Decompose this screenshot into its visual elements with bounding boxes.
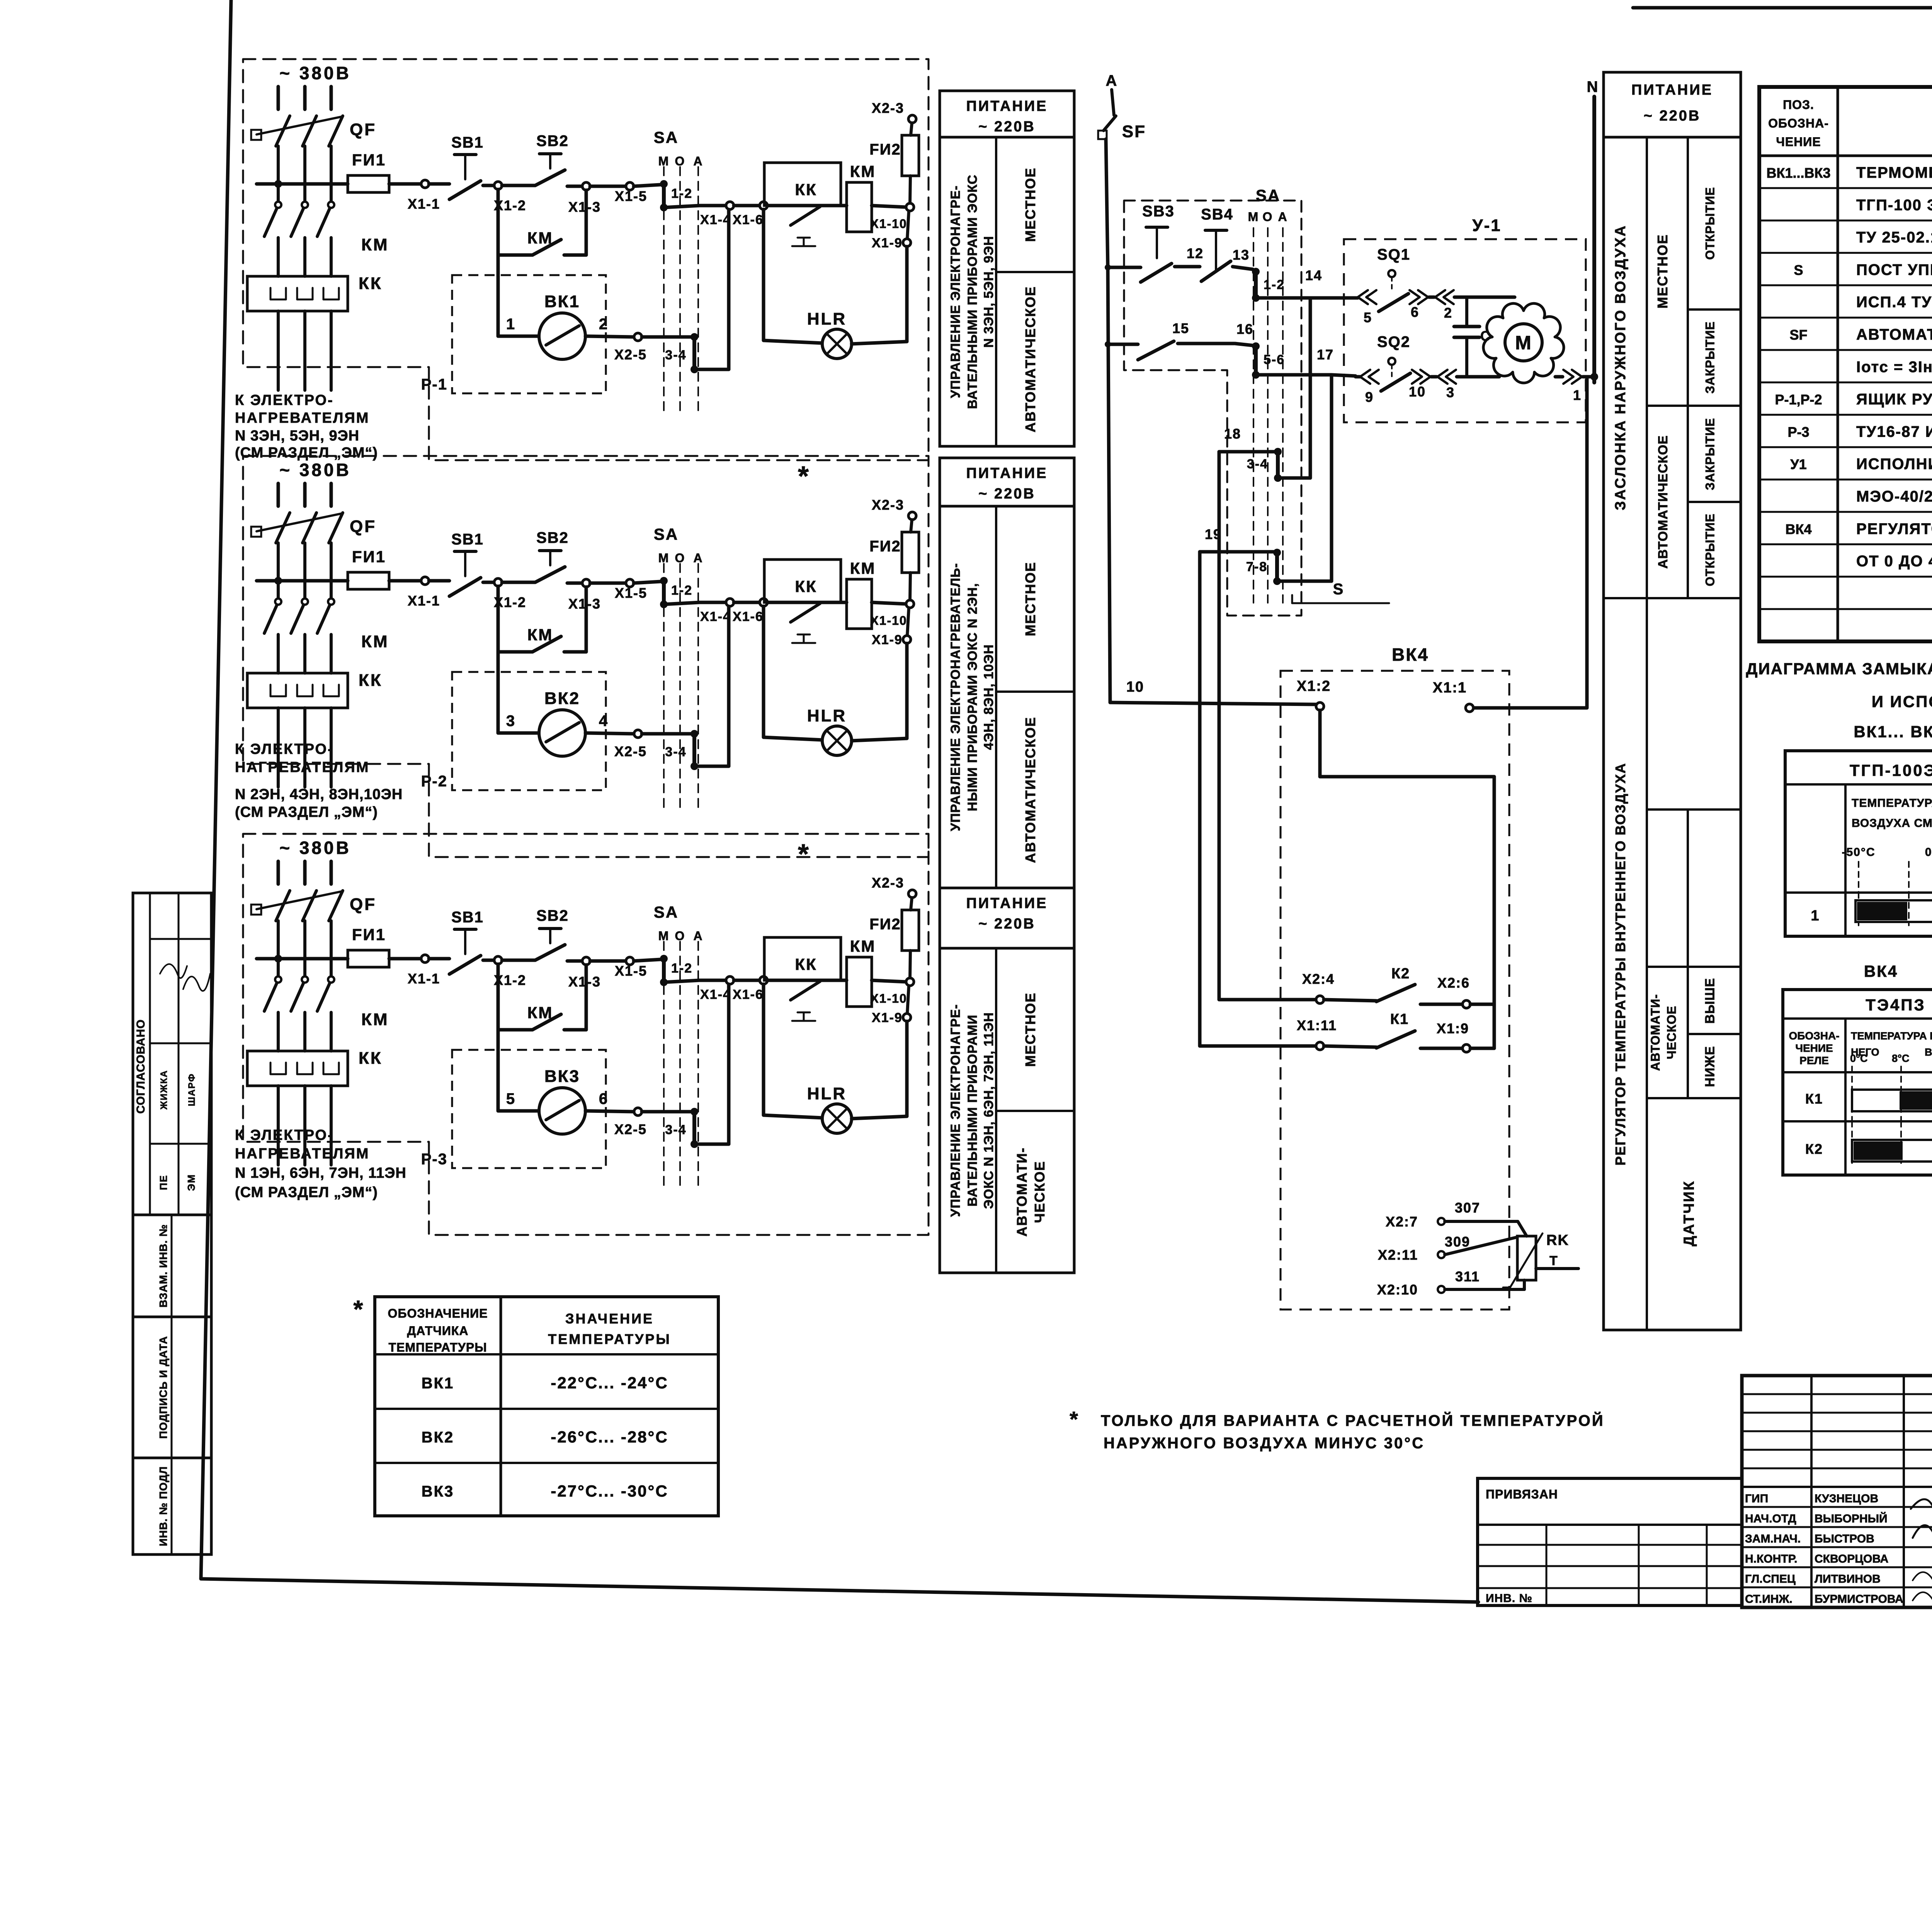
svg-text:Х1-4: Х1-4	[700, 609, 731, 624]
svg-text:ЭОКС N 1ЭН, 6ЭН, 7ЭН, 11ЭН: ЭОКС N 1ЭН, 6ЭН, 7ЭН, 11ЭН	[981, 1012, 996, 1209]
svg-text:ПРИВЯЗАН: ПРИВЯЗАН	[1486, 1487, 1558, 1501]
svg-text:HLR: HLR	[807, 706, 847, 725]
svg-text:15: 15	[1172, 320, 1189, 336]
svg-text:АВТОМАТИЧЕСКОЕ: АВТОМАТИЧЕСКОЕ	[1022, 716, 1038, 863]
svg-text:КМ: КМ	[850, 937, 876, 955]
svg-text:ОТ 0 ДО 40°С ТУ25.02.200353-8: ОТ 0 ДО 40°С ТУ25.02.200353-84	[1856, 553, 1932, 570]
svg-text:(СМ РАЗДЕЛ „ЭМ“): (СМ РАЗДЕЛ „ЭМ“)	[235, 804, 378, 820]
svg-text:ТОЛЬКО ДЛЯ ВАРИАНТА С РАСЧ: ТОЛЬКО ДЛЯ ВАРИАНТА С РАСЧЕТНОЙ ТЕМПЕРАТ…	[1101, 1412, 1605, 1429]
svg-text:3-4: 3-4	[1247, 457, 1268, 471]
svg-text:Х1-1: Х1-1	[408, 971, 440, 986]
svg-text:SF: SF	[1122, 122, 1146, 141]
svg-text:Х2:4: Х2:4	[1302, 971, 1335, 987]
svg-text:КМ: КМ	[850, 559, 876, 577]
svg-text:К2: К2	[1805, 1141, 1823, 1157]
svg-text:Х1:9: Х1:9	[1437, 1020, 1469, 1036]
svg-text:Х2-5: Х2-5	[614, 1121, 647, 1137]
svg-text:SA: SA	[654, 128, 679, 146]
svg-text:О: О	[675, 154, 685, 168]
svg-text:ПИТАНИЕ: ПИТАНИЕ	[1631, 82, 1713, 98]
svg-text:FИ2: FИ2	[869, 141, 901, 158]
svg-text:НАГРЕВАТЕЛЯМ: НАГРЕВАТЕЛЯМ	[235, 410, 369, 426]
svg-text:0°С: 0°С	[1850, 1053, 1867, 1064]
svg-text:ВК1: ВК1	[422, 1375, 454, 1392]
svg-text:~ 220В: ~ 220В	[978, 486, 1036, 502]
svg-text:12: 12	[1187, 245, 1204, 261]
svg-text:ОБОЗНАЧЕНИЕ: ОБОЗНАЧЕНИЕ	[388, 1306, 488, 1320]
svg-text:ВОЗДУХА СМ. ТАБЛИЦУ: ВОЗДУХА СМ. ТАБЛИЦУ	[1852, 817, 1932, 830]
svg-text:SB3: SB3	[1142, 203, 1175, 220]
svg-text:ПИТАНИЕ: ПИТАНИЕ	[966, 465, 1048, 481]
svg-text:СТ.ИНЖ.: СТ.ИНЖ.	[1745, 1593, 1793, 1605]
svg-text:Х1-10: Х1-10	[870, 992, 907, 1005]
svg-text:О: О	[1263, 210, 1273, 224]
svg-text:М: М	[658, 551, 670, 565]
svg-text:ВК1: ВК1	[544, 292, 580, 311]
svg-text:К ЭЛЕКТРО-: К ЭЛЕКТРО-	[235, 741, 334, 757]
svg-text:ТЕМПЕРАТУРЫ: ТЕМПЕРАТУРЫ	[388, 1340, 487, 1354]
svg-text:ЧЕНИЕ: ЧЕНИЕ	[1795, 1042, 1833, 1054]
svg-text:Х1-6: Х1-6	[733, 213, 764, 227]
svg-text:ТУ16-87 И УКЖ.656335.074ТУ: ТУ16-87 И УКЖ.656335.074ТУ	[1856, 423, 1932, 440]
svg-text:ВК3: ВК3	[544, 1067, 580, 1086]
svg-text:5: 5	[506, 1090, 515, 1107]
svg-text:Х1-9: Х1-9	[872, 633, 903, 647]
svg-text:ТЕМПЕРАТУРА ВНУТРЕН-: ТЕМПЕРАТУРА ВНУТРЕН-	[1851, 1030, 1932, 1042]
svg-text:Т: Т	[1549, 1253, 1558, 1268]
svg-text:КК: КК	[359, 671, 383, 690]
svg-text:МЕСТНОЕ: МЕСТНОЕ	[1655, 234, 1670, 308]
svg-text:М: М	[1248, 210, 1259, 224]
svg-text:5: 5	[1364, 310, 1372, 325]
svg-text:3-4: 3-4	[665, 1122, 686, 1137]
svg-text:НЫМИ ПРИБОРАМИ ЭОКС N 2ЭН,: НЫМИ ПРИБОРАМИ ЭОКС N 2ЭН,	[965, 583, 980, 811]
svg-text:Х2:6: Х2:6	[1437, 975, 1470, 991]
svg-text:К1: К1	[1805, 1091, 1823, 1107]
svg-text:ВЫШЕ: ВЫШЕ	[1703, 978, 1718, 1024]
svg-text:3: 3	[506, 713, 515, 730]
svg-text:309: 309	[1445, 1234, 1470, 1250]
svg-text:FИ2: FИ2	[869, 916, 901, 933]
svg-text:HLR: HLR	[807, 1084, 847, 1103]
svg-text:РЕГУЛЯТОР ТЕМПЕРАТУРЫ ВНУТРЕ: РЕГУЛЯТОР ТЕМПЕРАТУРЫ ВНУТРЕННЕГО ВОЗДУХ…	[1612, 763, 1628, 1166]
svg-text:FИ1: FИ1	[352, 151, 386, 169]
svg-text:КМ: КМ	[527, 1003, 553, 1022]
svg-text:A: A	[1106, 72, 1118, 89]
svg-text:307: 307	[1455, 1200, 1480, 1216]
svg-text:ЗАКРЫТИЕ: ЗАКРЫТИЕ	[1703, 418, 1717, 490]
svg-text:УПРАВЛЕНИЕ ЭЛЕКТРОНАГРЕ-: УПРАВЛЕНИЕ ЭЛЕКТРОНАГРЕ-	[948, 1004, 963, 1217]
svg-text:Р-1: Р-1	[421, 376, 447, 393]
svg-text:Х1-1: Х1-1	[408, 196, 440, 212]
svg-text:ШАРФ: ШАРФ	[187, 1073, 197, 1106]
svg-text:(СМ РАЗДЕЛ „ЭМ“): (СМ РАЗДЕЛ „ЭМ“)	[235, 1184, 378, 1201]
svg-text:19: 19	[1205, 526, 1222, 542]
svg-text:МЭО-40/25-0,25: МЭО-40/25-0,25	[1856, 488, 1932, 505]
svg-text:Х1-6: Х1-6	[733, 987, 764, 1002]
svg-text:1-2: 1-2	[671, 583, 692, 598]
svg-text:АВТОМАТИЧЕСКОЕ: АВТОМАТИЧЕСКОЕ	[1656, 435, 1670, 569]
svg-text:КМ: КМ	[361, 235, 389, 254]
svg-text:4ЭН, 8ЭН, 10ЭН: 4ЭН, 8ЭН, 10ЭН	[981, 644, 996, 750]
svg-text:О: О	[675, 929, 685, 943]
svg-text:НАЧ.ОТД: НАЧ.ОТД	[1745, 1512, 1796, 1525]
svg-text:1-2: 1-2	[1264, 277, 1285, 292]
svg-text:КУЗНЕЦОВ: КУЗНЕЦОВ	[1815, 1492, 1878, 1505]
svg-text:МЕСТНОЕ: МЕСТНОЕ	[1022, 561, 1038, 636]
svg-text:КМ: КМ	[361, 632, 389, 651]
svg-text:ВОЗДУХА: ВОЗДУХА	[1925, 1046, 1932, 1058]
svg-text:ДАТЧИК: ДАТЧИК	[1681, 1180, 1697, 1246]
svg-text:ВАТЕЛЬНЫМИ ПРИБОРАМИ ЭОКС: ВАТЕЛЬНЫМИ ПРИБОРАМИ ЭОКС	[965, 175, 980, 409]
svg-text:ТГП-100 ЭК -50°С ... + 50°С: ТГП-100 ЭК -50°С ... + 50°С	[1856, 197, 1932, 214]
svg-text:Х2-3: Х2-3	[872, 875, 904, 891]
svg-text:HLR: HLR	[807, 310, 847, 328]
svg-text:ПЕ: ПЕ	[158, 1175, 169, 1190]
svg-text:13: 13	[1233, 247, 1250, 263]
svg-text:ВЗАМ. ИНВ. №: ВЗАМ. ИНВ. №	[157, 1224, 169, 1308]
svg-text:Х2:11: Х2:11	[1378, 1247, 1418, 1263]
svg-text:QF: QF	[350, 517, 376, 536]
svg-text:~ 380В: ~ 380В	[279, 63, 351, 83]
svg-text:ЯЩИК РУСМ-5111: ЯЩИК РУСМ-5111	[1856, 391, 1932, 408]
svg-text:311: 311	[1455, 1269, 1480, 1284]
svg-text:RK: RK	[1546, 1232, 1569, 1248]
svg-text:~ 220В: ~ 220В	[978, 119, 1036, 135]
svg-text:КМ: КМ	[850, 162, 876, 180]
svg-text:1: 1	[506, 316, 515, 333]
svg-text:SB1: SB1	[451, 134, 484, 151]
svg-text:ПОСТ УПРАВЛЕНИЯ ПКУ15-21-131: ПОСТ УПРАВЛЕНИЯ ПКУ15-21-131-54У2	[1856, 261, 1932, 278]
svg-text:QF: QF	[350, 120, 376, 139]
svg-text:ПИТАНИЕ: ПИТАНИЕ	[966, 895, 1048, 912]
svg-text:М: М	[1515, 332, 1532, 354]
svg-text:НАГРЕВАТЕЛЯМ: НАГРЕВАТЕЛЯМ	[235, 759, 369, 776]
svg-text:Х1:2: Х1:2	[1297, 678, 1331, 694]
svg-text:ВК2: ВК2	[422, 1429, 454, 1446]
svg-text:К1: К1	[1390, 1011, 1409, 1027]
svg-text:КК: КК	[359, 274, 383, 293]
svg-text:ЛИТВИНОВ: ЛИТВИНОВ	[1815, 1573, 1881, 1585]
svg-text:ОБОЗНА-: ОБОЗНА-	[1789, 1030, 1840, 1042]
svg-text:ЧЕНИЕ: ЧЕНИЕ	[1776, 135, 1821, 149]
svg-text:Х2:7: Х2:7	[1386, 1214, 1418, 1230]
svg-text:ТЕМПЕРАТУРЫ: ТЕМПЕРАТУРЫ	[548, 1331, 671, 1347]
svg-text:ИСПОЛНИТЕЛЬНЫЙ МЕХАНИЗМ: ИСПОЛНИТЕЛЬНЫЙ МЕХАНИЗМ	[1856, 455, 1932, 473]
svg-text:Р-3: Р-3	[421, 1151, 447, 1168]
svg-text:ДАТЧИКА: ДАТЧИКА	[407, 1324, 469, 1338]
svg-text:У-1: У-1	[1472, 216, 1502, 235]
svg-text:НИЖЕ: НИЖЕ	[1703, 1046, 1718, 1087]
svg-text:~ 380В: ~ 380В	[279, 460, 351, 480]
svg-text:Х1:11: Х1:11	[1297, 1017, 1337, 1033]
svg-text:SA: SA	[1256, 186, 1281, 204]
svg-text:3-4: 3-4	[665, 348, 686, 362]
svg-text:Р-2: Р-2	[421, 773, 447, 790]
svg-text:ПОДПИСЬ И ДАТА: ПОДПИСЬ И ДАТА	[157, 1336, 169, 1439]
svg-text:КМ: КМ	[361, 1010, 389, 1029]
svg-text:Х1-10: Х1-10	[870, 217, 907, 231]
svg-text:SA: SA	[654, 525, 679, 543]
svg-text:ДИАГРАММА ЗАМЫКАНИЯ КОНТАКТО: ДИАГРАММА ЗАМЫКАНИЯ КОНТАКТОВ ТЕРМОРЕГУЛ…	[1746, 659, 1932, 678]
svg-text:КМ: КМ	[527, 626, 553, 644]
svg-text:N 1ЭН, 6ЭН, 7ЭН, 11ЭН: N 1ЭН, 6ЭН, 7ЭН, 11ЭН	[235, 1165, 406, 1181]
svg-text:9: 9	[1365, 389, 1374, 405]
svg-text:1: 1	[1573, 387, 1582, 403]
svg-text:*: *	[354, 1295, 364, 1323]
svg-text:А: А	[693, 551, 703, 565]
svg-text:~ 220В: ~ 220В	[1644, 108, 1701, 124]
svg-text:БЫСТРОВ: БЫСТРОВ	[1815, 1532, 1874, 1545]
svg-text:А: А	[693, 154, 703, 168]
svg-text:РЕГУЛЯТОР ТЕМПЕРАТУРЫ ТЭ403: РЕГУЛЯТОР ТЕМПЕРАТУРЫ ТЭ403	[1856, 520, 1932, 537]
svg-text:Н.КОНТР.: Н.КОНТР.	[1745, 1553, 1797, 1565]
svg-text:О: О	[675, 551, 685, 565]
svg-text:Iотс = 3Iн , ~ 220В, ТУ16-522.: Iотс = 3Iн , ~ 220В, ТУ16-522.140-78	[1856, 359, 1932, 376]
svg-text:ПИТАНИЕ: ПИТАНИЕ	[966, 98, 1048, 114]
svg-text:Р-3: Р-3	[1787, 424, 1809, 440]
svg-text:КК: КК	[795, 955, 817, 973]
svg-text:Х1-1: Х1-1	[408, 593, 440, 609]
svg-text:-50°С: -50°С	[1842, 846, 1875, 859]
svg-text:17: 17	[1317, 347, 1334, 362]
svg-text:FИ2: FИ2	[869, 538, 901, 555]
svg-text:*: *	[798, 461, 810, 492]
svg-text:И ИСПОЛНИТЕЛЬНОГО МЕХАНИЗМА: И ИСПОЛНИТЕЛЬНОГО МЕХАНИЗМА	[1872, 692, 1932, 711]
svg-text:ЧЕСКОЕ: ЧЕСКОЕ	[1665, 1006, 1679, 1060]
svg-text:Х1-4: Х1-4	[700, 987, 731, 1002]
svg-text:ЗАСЛОНКА НАРУЖНОГО ВОЗДУХА: ЗАСЛОНКА НАРУЖНОГО ВОЗДУХА	[1612, 224, 1629, 510]
svg-text:S: S	[1333, 581, 1344, 598]
svg-text:ИСП.4 ТУ16-526.333-83: ИСП.4 ТУ16-526.333-83	[1856, 294, 1932, 311]
svg-text:ОТКРЫТИЕ: ОТКРЫТИЕ	[1703, 514, 1717, 587]
svg-text:ТЕРМОМЕТР ПОКАЗЫВАЮЩИЙ: ТЕРМОМЕТР ПОКАЗЫВАЮЩИЙ	[1856, 163, 1932, 181]
svg-text:ГИП: ГИП	[1745, 1492, 1768, 1505]
svg-text:Х2-3: Х2-3	[872, 497, 904, 513]
svg-text:ИНВ. №: ИНВ. №	[1486, 1592, 1532, 1605]
svg-text:2: 2	[599, 316, 608, 333]
svg-text:ТЭ4ПЗ: ТЭ4ПЗ	[1866, 996, 1925, 1014]
svg-text:SA: SA	[654, 903, 679, 921]
svg-text:УПРАВЛЕНИЕ ЭЛЕКТРОНАГРЕ-: УПРАВЛЕНИЕ ЭЛЕКТРОНАГРЕ-	[948, 185, 963, 398]
svg-text:АВТОМАТ АК63-1МГ. Iн = 6А: АВТОМАТ АК63-1МГ. Iн = 6А	[1856, 326, 1932, 343]
svg-text:7-8: 7-8	[1246, 560, 1267, 574]
svg-text:ВЫБОРНЫЙ: ВЫБОРНЫЙ	[1815, 1512, 1888, 1525]
svg-text:Х2-5: Х2-5	[614, 347, 647, 362]
svg-text:N 3ЭН, 5ЭН, 9ЭН: N 3ЭН, 5ЭН, 9ЭН	[981, 236, 996, 348]
svg-text:ТЕМПЕРАТУРА НАРУЖНОГО: ТЕМПЕРАТУРА НАРУЖНОГО	[1852, 797, 1932, 810]
svg-text:ВК4: ВК4	[1864, 962, 1898, 980]
svg-text:4: 4	[599, 713, 608, 730]
svg-text:N 3ЭН, 5ЭН, 9ЭН: N 3ЭН, 5ЭН, 9ЭН	[235, 428, 359, 444]
svg-text:ЗНАЧЕНИЕ: ЗНАЧЕНИЕ	[565, 1311, 654, 1327]
svg-text:SB2: SB2	[536, 529, 569, 546]
svg-text:S: S	[1794, 262, 1803, 278]
svg-text:1: 1	[1811, 908, 1820, 924]
svg-text:0°С: 0°С	[1925, 846, 1932, 859]
svg-text:К2: К2	[1391, 966, 1410, 982]
svg-text:6: 6	[1411, 304, 1419, 320]
svg-text:АВТОМАТИ-: АВТОМАТИ-	[1648, 994, 1662, 1071]
svg-text:Х1-5: Х1-5	[615, 585, 647, 601]
svg-text:ЖИЖКА: ЖИЖКА	[159, 1070, 169, 1110]
svg-text:ПОЗ.: ПОЗ.	[1783, 98, 1814, 112]
svg-text:Х1-6: Х1-6	[733, 609, 764, 624]
svg-text:КК: КК	[795, 577, 817, 595]
svg-text:К ЭЛЕКТРО-: К ЭЛЕКТРО-	[235, 1127, 334, 1143]
svg-text:8°С: 8°С	[1892, 1053, 1909, 1064]
svg-text:SB4: SB4	[1201, 206, 1233, 223]
svg-text:14: 14	[1305, 267, 1322, 283]
svg-text:SF: SF	[1789, 327, 1807, 343]
svg-text:ЧЕСКОЕ: ЧЕСКОЕ	[1032, 1161, 1048, 1223]
svg-text:А: А	[693, 929, 703, 943]
svg-text:СОГЛАСОВАНО: СОГЛАСОВАНО	[134, 1019, 147, 1114]
svg-text:16: 16	[1236, 321, 1253, 337]
svg-text:N: N	[1587, 78, 1599, 95]
svg-text:*: *	[1070, 1407, 1079, 1431]
svg-text:А: А	[1278, 210, 1287, 224]
svg-text:Х1-9: Х1-9	[872, 236, 903, 250]
svg-text:SB1: SB1	[451, 531, 484, 548]
svg-text:10: 10	[1126, 679, 1144, 695]
svg-text:М: М	[658, 154, 670, 168]
svg-text:НАГРЕВАТЕЛЯМ: НАГРЕВАТЕЛЯМ	[235, 1146, 369, 1162]
svg-text:КК: КК	[795, 180, 817, 199]
svg-text:Х1:1: Х1:1	[1433, 680, 1467, 696]
svg-text:Х1-5: Х1-5	[615, 188, 647, 204]
svg-text:Х1-9: Х1-9	[872, 1010, 903, 1025]
svg-text:КК: КК	[359, 1049, 383, 1068]
svg-text:Х1-4: Х1-4	[700, 213, 731, 227]
svg-text:ГЛ.СПЕЦ: ГЛ.СПЕЦ	[1745, 1573, 1796, 1585]
svg-text:К ЭЛЕКТРО-: К ЭЛЕКТРО-	[235, 392, 334, 408]
svg-text:ВК2: ВК2	[544, 689, 580, 708]
svg-text:АВТОМАТИЧЕСКОЕ: АВТОМАТИЧЕСКОЕ	[1022, 286, 1038, 432]
svg-text:Х1-5: Х1-5	[615, 963, 647, 979]
svg-text:ВК1...ВК3: ВК1...ВК3	[1767, 165, 1831, 181]
svg-text:FИ1: FИ1	[352, 925, 386, 944]
svg-text:~ 380В: ~ 380В	[279, 838, 351, 858]
svg-text:АВТОМАТИ-: АВТОМАТИ-	[1014, 1147, 1030, 1237]
svg-text:-27°С... -30°С: -27°С... -30°С	[551, 1482, 668, 1500]
svg-text:ЭМ: ЭМ	[185, 1174, 197, 1191]
svg-text:3: 3	[1446, 384, 1455, 400]
svg-text:УПРАВЛЕНИЕ ЭЛЕКТРОНАГРЕВАТЕЛЬ-: УПРАВЛЕНИЕ ЭЛЕКТРОНАГРЕВАТЕЛЬ-	[948, 563, 963, 831]
svg-text:18: 18	[1224, 426, 1241, 442]
svg-text:~ 220В: ~ 220В	[978, 916, 1036, 932]
svg-text:ОБОЗНА-: ОБОЗНА-	[1768, 116, 1829, 130]
svg-text:ВК1... ВК3: ВК1... ВК3	[1854, 723, 1932, 741]
svg-text:ИНВ. № ПОДЛ: ИНВ. № ПОДЛ	[157, 1466, 169, 1546]
svg-text:ВК3: ВК3	[422, 1483, 454, 1500]
svg-text:FИ1: FИ1	[352, 548, 386, 566]
svg-text:БУРМИСТРОВА: БУРМИСТРОВА	[1815, 1593, 1903, 1605]
svg-text:ЗАКРЫТИЕ: ЗАКРЫТИЕ	[1703, 321, 1717, 393]
svg-text:ВК4: ВК4	[1392, 645, 1429, 665]
svg-text:-26°С... -28°С: -26°С... -28°С	[551, 1428, 668, 1446]
svg-text:SB2: SB2	[536, 133, 569, 150]
svg-text:ТУ 25-02.100375-84: ТУ 25-02.100375-84	[1856, 229, 1932, 246]
svg-text:SQ1: SQ1	[1377, 246, 1410, 263]
svg-text:ОТКРЫТИЕ: ОТКРЫТИЕ	[1703, 187, 1717, 260]
svg-text:Х2-3: Х2-3	[872, 100, 904, 116]
svg-text:6: 6	[599, 1090, 608, 1107]
svg-text:У1: У1	[1790, 456, 1806, 472]
svg-text:ЗАМ.НАЧ.: ЗАМ.НАЧ.	[1745, 1532, 1801, 1545]
svg-text:SQ2: SQ2	[1377, 333, 1410, 350]
svg-text:5-6: 5-6	[1264, 352, 1285, 367]
svg-text:-22°С... -24°С: -22°С... -24°С	[551, 1374, 668, 1392]
svg-text:КМ: КМ	[527, 229, 553, 247]
svg-text:*: *	[798, 839, 810, 870]
svg-text:10: 10	[1409, 384, 1426, 400]
svg-text:СКВОРЦОВА: СКВОРЦОВА	[1815, 1553, 1888, 1565]
svg-text:ВК4: ВК4	[1786, 521, 1812, 537]
svg-text:QF: QF	[350, 895, 376, 914]
svg-text:1-2: 1-2	[671, 186, 692, 201]
svg-text:ВАТЕЛЬНЫМИ ПРИБОРАМИ: ВАТЕЛЬНЫМИ ПРИБОРАМИ	[965, 1015, 980, 1207]
svg-text:НАРУЖНОГО ВОЗДУХА МИНУС 30°: НАРУЖНОГО ВОЗДУХА МИНУС 30°С	[1104, 1435, 1425, 1452]
svg-text:(СМ РАЗДЕЛ „ЭМ“): (СМ РАЗДЕЛ „ЭМ“)	[235, 445, 378, 461]
svg-text:SB1: SB1	[451, 909, 484, 926]
svg-text:N 2ЭН, 4ЭН, 8ЭН,10ЭН: N 2ЭН, 4ЭН, 8ЭН,10ЭН	[235, 786, 403, 803]
svg-text:М: М	[658, 929, 670, 943]
svg-text:ТГП-100ЭК: ТГП-100ЭК	[1850, 761, 1932, 779]
svg-text:2: 2	[1444, 305, 1452, 321]
svg-text:Х2:10: Х2:10	[1377, 1282, 1418, 1298]
svg-text:Х2-5: Х2-5	[614, 743, 647, 759]
svg-text:РЕЛЕ: РЕЛЕ	[1799, 1054, 1829, 1066]
svg-text:МЕСТНОЕ: МЕСТНОЕ	[1022, 992, 1038, 1067]
svg-text:Х1-10: Х1-10	[870, 614, 907, 628]
svg-text:1-2: 1-2	[671, 961, 692, 976]
svg-text:Р-1,Р-2: Р-1,Р-2	[1775, 392, 1822, 408]
svg-text:SB2: SB2	[536, 907, 569, 924]
svg-text:3-4: 3-4	[665, 745, 686, 759]
svg-text:МЕСТНОЕ: МЕСТНОЕ	[1022, 167, 1038, 242]
